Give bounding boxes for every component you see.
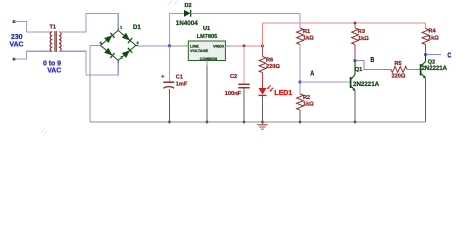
wire C1 to ground rail (169, 89, 171, 122)
svg-text:VREG: VREG (213, 44, 224, 49)
faint print artifact bottom left (41, 128, 47, 135)
wire node B jog to R5 (355, 61, 391, 70)
node B junction (353, 59, 356, 62)
svg-text:2N2221A: 2N2221A (353, 81, 380, 88)
wire R5 to Q2 base (407, 68, 420, 70)
ground symbol (257, 122, 267, 129)
node 230VAC terminal dot bottom (13, 58, 16, 61)
svg-text:2: 2 (121, 55, 124, 60)
wire R2 to ground rail (299, 110, 301, 122)
svg-text:VAC: VAC (47, 68, 61, 75)
resistor R3 (354, 23, 356, 28)
wire unregulated DC up to D2 rail (170, 13, 185, 46)
node junction bridge/U1/C1/D2 (168, 44, 171, 47)
svg-text:R6: R6 (266, 57, 273, 63)
resistor R2 (297, 94, 304, 110)
svg-text:1kΩ: 1kΩ (358, 36, 369, 42)
svg-text:1N4004: 1N4004 (176, 20, 199, 27)
LED1 (262, 73, 264, 89)
node C junction (424, 53, 427, 56)
wire input bottom (14, 51, 52, 59)
svg-text:D2: D2 (185, 3, 192, 9)
svg-text:A: A (310, 70, 314, 78)
wire LED1 to ground rail (262, 96, 264, 122)
capacitor C2 (243, 46, 245, 84)
svg-text:C1: C1 (176, 75, 183, 81)
diode D1 lower-right (122, 50, 130, 58)
resistor R5 (391, 66, 407, 72)
svg-text:B: B (370, 56, 374, 64)
svg-text:R5: R5 (395, 61, 402, 67)
node junction C2 (243, 45, 246, 48)
svg-text:R4: R4 (429, 29, 437, 35)
svg-text:1kΩ: 1kΩ (303, 102, 314, 108)
faint print artifact top (168, 1, 178, 6)
svg-text:2N2221A: 2N2221A (422, 66, 448, 72)
wire ground rail (90, 121, 426, 123)
wire R4 to node C junction (425, 45, 427, 55)
diode D1 upper-right (122, 33, 130, 41)
wire R1 to node A (299, 45, 301, 95)
svg-text:VOLTAGE: VOLTAGE (190, 48, 209, 53)
node A junction (298, 80, 301, 83)
svg-text:C2: C2 (230, 74, 237, 80)
svg-text:3: 3 (137, 40, 140, 45)
wire +5V up to red rail (262, 23, 264, 46)
svg-text:T1: T1 (50, 24, 57, 30)
resistor R6 (262, 46, 264, 57)
svg-text:100nF: 100nF (225, 91, 242, 97)
svg-text:Q1: Q1 (355, 67, 362, 73)
wire +5V red rail (263, 23, 426, 29)
svg-text:220Ω: 220Ω (266, 64, 280, 70)
diode D1 lower-left (104, 48, 112, 56)
svg-text:U1: U1 (203, 26, 210, 32)
svg-text:0 to 9: 0 to 9 (43, 61, 61, 68)
svg-text:1: 1 (120, 25, 123, 30)
wire secondary top to bridge top (59, 13, 118, 32)
op-amp U1 LM7805 regulator box (188, 41, 225, 61)
wire Q2 emitter to ground rail (425, 79, 427, 123)
wire input top (14, 22, 52, 32)
node junction R6 column (261, 45, 264, 48)
svg-text:VAC: VAC (10, 42, 24, 49)
svg-text:1mF: 1mF (176, 81, 188, 87)
wire Q1 emitter to ground rail (354, 91, 356, 122)
wire secondary bottom to bridge bottom (59, 51, 118, 75)
svg-text:LM7805: LM7805 (197, 34, 218, 40)
wire +5V output line (232, 45, 263, 47)
transistor Q1 (350, 77, 352, 88)
wire R3 to node B junction (354, 45, 356, 61)
transformer T1 (50, 31, 61, 52)
diode bridge D1 (98, 28, 139, 63)
pin stub U1 input (171, 45, 188, 47)
svg-text:230: 230 (11, 34, 23, 41)
diode D1 upper-left (104, 35, 112, 43)
node 230VAC terminal dot top (13, 20, 16, 23)
wire U1 common to ground rail (206, 66, 208, 122)
svg-text:1kΩ: 1kΩ (428, 36, 439, 42)
svg-text:D1: D1 (133, 25, 141, 31)
svg-text:R3: R3 (358, 29, 365, 35)
svg-text:COMMON: COMMON (200, 57, 218, 61)
svg-text:LED1: LED1 (274, 90, 292, 97)
wire node A to Q1 base (300, 81, 350, 83)
wire node C (426, 54, 442, 56)
wire bridge right to U1 input (139, 45, 172, 47)
svg-text:220Ω: 220Ω (392, 74, 406, 80)
wire ground from bridge left vertex (90, 45, 101, 122)
svg-text:1kΩ: 1kΩ (303, 35, 314, 41)
capacitor C1 (169, 46, 171, 82)
wire C2 to ground rail (243, 89, 245, 123)
svg-text:C: C (447, 52, 451, 60)
svg-text:R2: R2 (303, 95, 310, 101)
svg-text:Q2: Q2 (428, 60, 435, 66)
diode D2 (184, 10, 191, 17)
resistor R4 (422, 29, 429, 45)
resistor R1 (297, 28, 304, 45)
wire D2 cathode rail to R1 column (191, 13, 300, 27)
transistor Q2 (420, 64, 422, 76)
LED1 arrows (267, 85, 273, 91)
svg-text:R1: R1 (303, 29, 310, 35)
pin stub U1 output (225, 45, 232, 47)
pin stub U1 common (206, 61, 208, 67)
